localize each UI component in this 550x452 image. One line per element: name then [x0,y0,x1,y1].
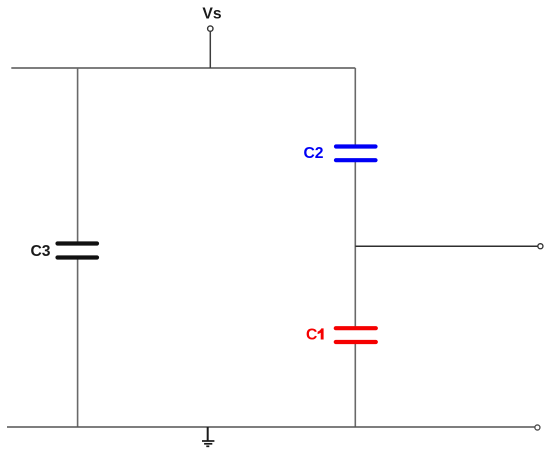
wire Vs stub [209,32,211,68]
svg-text:C: C [306,327,317,344]
label C1 [306,327,324,344]
wire right vertical lower [354,342,356,427]
wire top horizontal [11,67,355,69]
wire left vertical upper [77,68,79,244]
terminal Vs [208,26,213,31]
svg-text:C3: C3 [30,243,50,260]
svg-text:C2: C2 [303,145,323,162]
wire left vertical lower [77,258,79,428]
ground [202,427,214,446]
wire bottom horizontal [7,426,535,428]
wire right vertical middle [354,160,356,328]
wire output middle [355,245,538,247]
capacitor C3 [58,244,98,258]
node bottom terminal [535,425,540,430]
wire right vertical upper [354,68,356,147]
svg-text:Vs: Vs [202,6,221,23]
capacitor C1 [336,328,376,342]
capacitor C2 [336,147,376,161]
node output terminal [538,244,543,249]
